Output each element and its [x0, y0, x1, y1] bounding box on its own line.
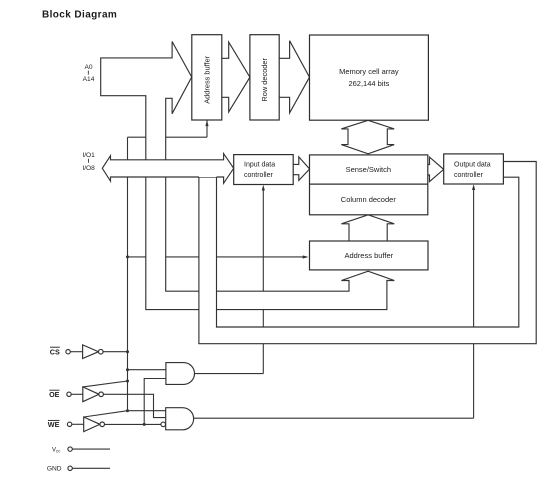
wire AND2 output — [194, 417, 474, 419]
wire WE branch to AND1 input 2 — [144, 379, 166, 425]
bubble input of U2 — [161, 422, 166, 427]
wire input controller enable vertical — [262, 188, 264, 374]
label memory cell array — [339, 67, 399, 88]
wire GND stub — [72, 467, 110, 469]
wire diagonal D2 from WE input corner — [84, 411, 128, 417]
svg-text:A14: A14 — [83, 76, 95, 83]
wire AND2 input 1 — [128, 410, 166, 412]
wire CS riser into address buffer — [206, 121, 208, 138]
box address buffer (top) — [192, 35, 222, 120]
svg-text:Output data: Output data — [454, 162, 491, 169]
svg-text:Memory cell array: Memory cell array — [339, 67, 399, 76]
junction dot CS/lower address — [126, 255, 129, 258]
and-gate U1 (to input data controller) — [166, 363, 195, 385]
box output data controller — [444, 154, 504, 184]
junction dot D1 — [126, 380, 129, 383]
box memory cell array — [310, 35, 429, 120]
pad OE — [67, 392, 71, 396]
pad CS — [66, 350, 70, 354]
box sense/switch + column decoder — [310, 155, 428, 215]
label A0-A14 — [84, 64, 92, 71]
pad GND — [68, 466, 72, 470]
label input data controller — [244, 162, 275, 179]
svg-text:Input data: Input data — [244, 162, 275, 169]
inverter OE — [83, 387, 99, 402]
box input data controller — [234, 155, 294, 185]
junction dot CS inverter output — [126, 350, 129, 353]
bus arrow sense/switch to output data controller — [428, 157, 444, 182]
svg-text:Vcc: Vcc — [52, 447, 61, 453]
svg-text:I/O1: I/O1 — [82, 152, 95, 159]
wire CS inverter output — [103, 351, 127, 353]
wire OE pad stub — [71, 393, 83, 395]
label I/O1-I/O8 — [82, 152, 95, 159]
wire AND1 output — [195, 373, 264, 375]
svg-text:Column decoder: Column decoder — [341, 195, 397, 204]
junction dot WE branch — [143, 423, 146, 426]
wire AND1 input 1 — [128, 369, 166, 371]
bus up arrow lower address buffer to column decoder — [341, 215, 394, 241]
svg-text:Row decoder: Row decoder — [260, 57, 269, 101]
wire CS net vertical — [127, 137, 129, 411]
inverter CS — [83, 345, 99, 359]
wire CS branch to lower address buffer — [128, 256, 307, 258]
svg-text:A0: A0 — [84, 64, 92, 71]
arrowhead into input data controller — [262, 185, 265, 191]
bus I/O1-I/O8 double arrow — [102, 154, 233, 184]
junction dot AND1 input — [126, 368, 129, 371]
bus double arrow memory to sense/switch — [341, 120, 394, 154]
svg-text:WE: WE — [48, 420, 60, 429]
svg-text:controller: controller — [454, 172, 483, 179]
arrowhead into lower address buffer — [303, 255, 309, 258]
svg-text:Address buffer: Address buffer — [344, 251, 393, 260]
wire diagonal D1 from OE input corner — [83, 381, 128, 387]
bus A0-A14 fat arrow with leg and channel to lower address buffer — [101, 42, 395, 310]
svg-text:OE: OE — [49, 390, 60, 399]
wire CS pad stub — [70, 351, 82, 353]
bus arrow input data controller to sense/switch — [293, 157, 309, 181]
inverter WE — [84, 417, 100, 432]
box row decoder — [250, 35, 279, 120]
wire Vcc stub — [72, 448, 110, 450]
label output data controller — [454, 162, 491, 179]
wire WE pad stub — [72, 423, 84, 425]
svg-text:CS: CS — [50, 347, 60, 356]
pad Vcc — [68, 447, 72, 451]
svg-text:controller: controller — [244, 172, 273, 179]
wire WE to AND2 bubble input — [105, 423, 161, 425]
arrowhead into output data controller — [472, 184, 475, 190]
bus I/O return channel to output data controller — [199, 162, 536, 344]
junction dot D2 / AND2 input — [126, 409, 129, 412]
and-gate U2 (to output data controller) — [166, 408, 194, 430]
svg-text:262,144 bits: 262,144 bits — [348, 79, 389, 88]
bus arrow address buffer to row decoder — [222, 42, 250, 112]
wire output controller enable vertical — [473, 187, 475, 418]
svg-text:I/O8: I/O8 — [82, 165, 95, 172]
pad WE — [67, 422, 71, 426]
svg-text:Address buffer: Address buffer — [203, 55, 212, 103]
divider sense/column — [310, 183, 428, 185]
svg-text:Sense/Switch: Sense/Switch — [346, 165, 391, 174]
box address buffer (lower) — [310, 241, 429, 270]
svg-text:GND: GND — [47, 466, 62, 473]
wire OE to AND2 input 2 — [103, 394, 165, 417]
svg-text:Block Diagram: Block Diagram — [42, 10, 117, 21]
arrowhead into upper address buffer — [205, 120, 208, 126]
wire CS to upper address buffer horizontal — [128, 136, 208, 138]
bus arrow row decoder to memory cell array — [279, 41, 309, 113]
